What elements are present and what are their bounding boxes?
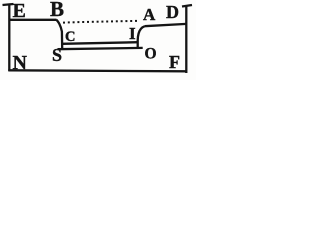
svg-text:I: I xyxy=(129,24,136,43)
svg-text:D: D xyxy=(166,2,179,22)
svg-text:S: S xyxy=(52,45,62,65)
svg-text:N: N xyxy=(13,52,28,74)
svg-text:F: F xyxy=(169,52,180,72)
svg-text:B: B xyxy=(50,0,64,21)
svg-text:C: C xyxy=(65,29,75,45)
svg-text:A: A xyxy=(143,5,156,24)
svg-text:E: E xyxy=(13,0,26,22)
svg-text:O: O xyxy=(145,46,157,63)
